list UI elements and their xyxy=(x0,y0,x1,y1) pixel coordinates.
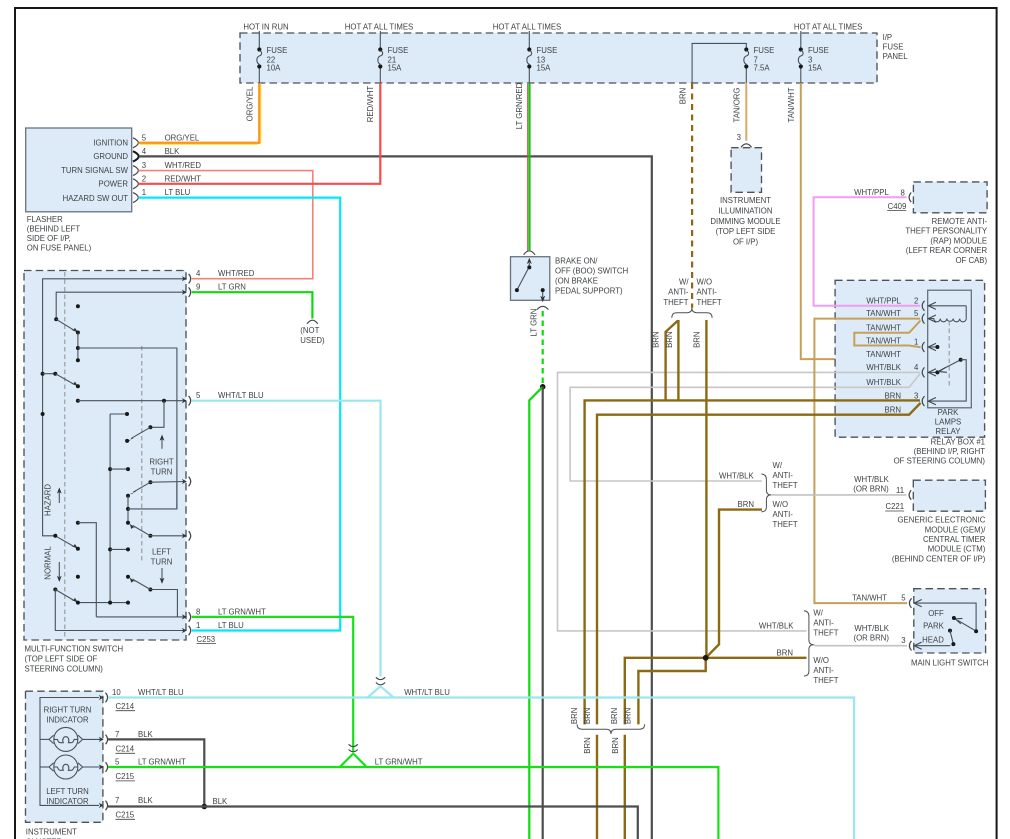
right turn feed blade xyxy=(150,401,164,428)
svg-text:9: 9 xyxy=(196,283,200,292)
svg-text:TURN: TURN xyxy=(151,468,173,477)
wire BRN junction right to MLS brace xyxy=(706,657,807,659)
svg-text:BRN: BRN xyxy=(611,737,620,753)
svg-text:IGNITION: IGNITION xyxy=(93,138,128,147)
svg-text:(TOP LEFT SIDE OF: (TOP LEFT SIDE OF xyxy=(25,654,98,663)
svg-text:RELAY BOX #1: RELAY BOX #1 xyxy=(931,437,985,446)
svg-text:WHT/BLK: WHT/BLK xyxy=(866,378,901,387)
svg-text:LT GRN/RED: LT GRN/RED xyxy=(515,82,524,129)
fuse 21 xyxy=(378,47,383,68)
svg-text:(LEFT REAR CORNER: (LEFT REAR CORNER xyxy=(906,246,988,255)
fuse 7 feed jog from BRN tap xyxy=(692,43,746,83)
fuse 22 xyxy=(257,47,262,68)
wire WHT/BLK(OR BRN) GEM brace to pin 11 xyxy=(771,494,906,496)
svg-text:3: 3 xyxy=(737,133,741,142)
svg-text:BRN: BRN xyxy=(652,331,661,347)
svg-text:GENERIC ELECTRONIC: GENERIC ELECTRONIC xyxy=(897,516,985,525)
left turn indicator lamp xyxy=(49,755,83,779)
flasher box xyxy=(26,128,132,212)
wire BRN w/o anti-theft (down to junction) xyxy=(705,320,707,658)
MFS pin 8 xyxy=(182,612,191,622)
wire WHT/PPL RAP to relay pin 2 xyxy=(814,197,920,305)
svg-text:WHT/RED: WHT/RED xyxy=(165,161,202,170)
svg-text:WHT/LT BLU: WHT/LT BLU xyxy=(138,688,184,697)
svg-text:RIGHT TURN: RIGHT TURN xyxy=(44,706,92,715)
svg-text:FUSE: FUSE xyxy=(388,46,409,55)
svg-text:OF CAB): OF CAB) xyxy=(955,256,987,265)
svg-text:WHT/BLK: WHT/BLK xyxy=(866,363,901,372)
svg-text:OFF (BOO) SWITCH: OFF (BOO) SWITCH xyxy=(555,267,628,276)
svg-text:HAZARD SW OUT: HAZARD SW OUT xyxy=(63,194,129,203)
wire BRN w/anti-theft 1 (to relay pin3 run) xyxy=(666,321,678,401)
flasher pin 1 xyxy=(133,193,138,203)
svg-text:MAIN LIGHT SWITCH: MAIN LIGHT SWITCH xyxy=(911,659,988,668)
MLS brace xyxy=(804,611,814,676)
wire TAN/WHT relay pin5 to MLS pin5 xyxy=(814,319,920,603)
svg-text:STEERING COLUMN): STEERING COLUMN) xyxy=(25,664,104,673)
hazard blade 2 xyxy=(43,373,56,375)
fuse 3 feed wire xyxy=(800,31,802,49)
svg-text:PARK: PARK xyxy=(923,621,944,630)
svg-text:4: 4 xyxy=(914,363,919,372)
wire LT GRN/RED fuse 13 to BOO switch xyxy=(527,84,529,251)
svg-text:LT GRN: LT GRN xyxy=(530,309,539,337)
svg-text:FUSE: FUSE xyxy=(267,46,288,55)
svg-text:BRN: BRN xyxy=(583,708,592,724)
svg-text:3: 3 xyxy=(142,161,146,170)
svg-text:I/P: I/P xyxy=(883,33,893,42)
relay pin 1 xyxy=(922,342,936,352)
svg-text:8: 8 xyxy=(901,188,905,197)
relay pin 2 xyxy=(922,301,936,311)
svg-text:WHT/PPL: WHT/PPL xyxy=(866,296,901,305)
MFS pin 9 xyxy=(182,287,191,297)
svg-text:BRN: BRN xyxy=(885,406,901,415)
svg-text:10A: 10A xyxy=(267,64,282,73)
svg-text:WHT/RED: WHT/RED xyxy=(218,269,255,278)
svg-text:ORG/YEL: ORG/YEL xyxy=(165,133,200,142)
bus A from pin 4 xyxy=(43,279,186,536)
svg-text:THEFT: THEFT xyxy=(813,628,838,637)
svg-text:ANTI-: ANTI- xyxy=(813,666,834,675)
svg-text:LT GRN/WHT: LT GRN/WHT xyxy=(218,607,266,616)
brace under fuse 7 BRN xyxy=(672,308,712,318)
wire BRN dashed fuse 7 tap down to brace xyxy=(691,83,693,308)
cluster pin 7 (C214) xyxy=(99,735,108,745)
left turn pickup xyxy=(76,521,80,525)
svg-text:BRN: BRN xyxy=(623,708,632,724)
svg-text:TAN/ORG: TAN/ORG xyxy=(733,88,742,123)
svg-text:W/: W/ xyxy=(813,608,823,617)
svg-text:MODULE (CTM): MODULE (CTM) xyxy=(928,545,986,554)
svg-text:HAZARD: HAZARD xyxy=(44,484,53,516)
svg-text:7: 7 xyxy=(115,796,119,805)
svg-text:(NOT: (NOT xyxy=(300,326,319,335)
MFS pin 1 xyxy=(182,626,191,636)
svg-text:WHT/LT BLU: WHT/LT BLU xyxy=(404,688,450,697)
svg-text:REMOTE ANTI-: REMOTE ANTI- xyxy=(932,217,988,226)
svg-text:HOT AT ALL TIMES: HOT AT ALL TIMES xyxy=(345,23,413,32)
wire BRN lower run to relay pin 3 connector xyxy=(597,403,921,725)
svg-text:3: 3 xyxy=(901,636,905,645)
wire WHT/BLK(OR BRN) MLS brace to pin 3 xyxy=(814,645,907,646)
svg-text:ANTI-: ANTI- xyxy=(813,618,834,627)
svg-text:5: 5 xyxy=(142,133,147,142)
svg-text:FUSE: FUSE xyxy=(537,46,558,55)
svg-text:FUSE: FUSE xyxy=(808,46,829,55)
svg-text:ANTI-: ANTI- xyxy=(668,288,689,297)
cluster pin 7 (C215) xyxy=(99,801,108,811)
wire RED/WHT fuse 21 to flasher pin2 xyxy=(138,83,380,184)
svg-text:THEFT: THEFT xyxy=(813,676,838,685)
svg-text:BRN: BRN xyxy=(610,708,619,724)
svg-text:HOT AT ALL TIMES: HOT AT ALL TIMES xyxy=(794,23,862,32)
brace above bottom BRN group xyxy=(577,724,645,734)
bus E center xyxy=(110,413,127,415)
svg-text:11: 11 xyxy=(896,486,904,495)
right turn contact chain xyxy=(148,480,152,484)
wire LT GRN solid from junction down page xyxy=(529,387,542,839)
svg-text:RED/WHT: RED/WHT xyxy=(165,174,202,183)
svg-text:RIGHT: RIGHT xyxy=(149,458,173,467)
svg-text:5: 5 xyxy=(901,594,906,603)
wire BRN w/anti-theft 2 xyxy=(677,320,679,400)
svg-text:WHT/BLK: WHT/BLK xyxy=(854,475,889,484)
relay inner rect xyxy=(928,290,972,408)
svg-text:THEFT: THEFT xyxy=(663,298,688,307)
wire BRN junction left then down xyxy=(625,658,706,725)
hazard blade 1 xyxy=(56,319,74,330)
svg-text:FUSE: FUSE xyxy=(883,43,904,52)
MLS box xyxy=(914,589,986,653)
svg-text:BRN: BRN xyxy=(693,331,702,347)
svg-text:PEDAL SUPPORT): PEDAL SUPPORT) xyxy=(555,287,623,296)
fuse 21 feed wire xyxy=(379,31,381,49)
svg-text:OF STEERING COLUMN): OF STEERING COLUMN) xyxy=(894,457,986,466)
left turn blade xyxy=(126,575,130,579)
flasher pin 5 xyxy=(133,138,138,148)
svg-text:ANTI-: ANTI- xyxy=(773,471,794,480)
MFS internal wiring xyxy=(41,279,186,631)
svg-text:BRAKE ON/: BRAKE ON/ xyxy=(555,257,598,266)
wire BLK cluster pin7a down to pin7b run xyxy=(108,739,204,806)
svg-text:(OR BRN): (OR BRN) xyxy=(853,485,889,494)
svg-text:PANEL: PANEL xyxy=(883,52,909,61)
wire BRN junction diag up to GEM brace xyxy=(707,510,762,657)
svg-text:C214: C214 xyxy=(116,745,135,754)
fuse 13 feed wire xyxy=(528,31,530,49)
svg-text:TAN/WHT: TAN/WHT xyxy=(866,350,901,359)
svg-text:POWER: POWER xyxy=(99,179,129,188)
wire TAN/ORG fuse 7 to dimmer module xyxy=(745,83,747,141)
svg-text:LAMPS: LAMPS xyxy=(935,418,961,427)
flasher pin 3 xyxy=(133,166,138,176)
svg-text:C253: C253 xyxy=(197,635,216,644)
fuse 22 feed wire xyxy=(258,31,260,49)
BOO internal contacts xyxy=(515,258,545,302)
svg-text:TURN: TURN xyxy=(151,558,173,567)
BOO switch box xyxy=(511,257,550,301)
hazard blade 3 xyxy=(55,536,74,547)
wire WHT/BLK relay lower to GEM brace xyxy=(570,374,920,481)
svg-text:WHT/BLK: WHT/BLK xyxy=(719,472,754,481)
svg-text:(BEHIND I/P, RIGHT: (BEHIND I/P, RIGHT xyxy=(914,447,986,456)
wire BRN below brace left xyxy=(596,735,598,839)
svg-text:W/: W/ xyxy=(773,461,783,470)
svg-text:BRN: BRN xyxy=(777,648,793,657)
svg-text:ORG/YEL: ORG/YEL xyxy=(246,86,255,121)
svg-text:TAN/WHT: TAN/WHT xyxy=(852,594,887,603)
svg-text:5: 5 xyxy=(115,758,120,767)
svg-text:BRN: BRN xyxy=(665,331,674,347)
svg-text:(TOP LEFT SIDE: (TOP LEFT SIDE xyxy=(716,227,776,236)
MFS pin 5 xyxy=(182,396,191,406)
svg-text:5: 5 xyxy=(914,309,919,318)
svg-text:ANTI-: ANTI- xyxy=(697,288,718,297)
relay pin 5 xyxy=(922,314,936,324)
svg-text:TAN/WHT: TAN/WHT xyxy=(787,87,796,122)
cluster pin 10 xyxy=(99,693,108,703)
svg-text:15A: 15A xyxy=(808,64,823,73)
svg-text:BRN: BRN xyxy=(583,737,592,753)
MFS right turn stub pins xyxy=(182,477,191,487)
svg-text:(BEHIND CENTER OF I/P): (BEHIND CENTER OF I/P) xyxy=(892,554,986,563)
wire BRN horizontal run to relay pin 3 xyxy=(585,400,920,724)
svg-text:10: 10 xyxy=(112,688,121,697)
cluster pin 5 (C215) xyxy=(99,762,108,772)
svg-text:4: 4 xyxy=(142,147,147,156)
RAP module box xyxy=(913,182,987,213)
svg-text:7.5A: 7.5A xyxy=(754,64,771,73)
svg-text:TAN/WHT: TAN/WHT xyxy=(866,309,901,318)
wire LT GRN/WHT MFS pin8 to splice xyxy=(192,617,353,753)
svg-text:INSTRUMENT: INSTRUMENT xyxy=(720,196,771,205)
svg-text:HOT AT ALL TIMES: HOT AT ALL TIMES xyxy=(493,23,561,32)
svg-text:THEFT: THEFT xyxy=(773,481,798,490)
wire WHT/LT BLU MFS pin5 to splice xyxy=(192,401,381,677)
svg-text:1: 1 xyxy=(142,188,146,197)
svg-text:SIDE OF I/P,: SIDE OF I/P, xyxy=(27,234,71,243)
svg-text:THEFT: THEFT xyxy=(773,520,798,529)
relay pin 4 xyxy=(922,367,936,377)
svg-text:LT GRN: LT GRN xyxy=(218,283,246,292)
svg-text:MULTI-FUNCTION SWITCH: MULTI-FUNCTION SWITCH xyxy=(25,644,124,653)
svg-text:2: 2 xyxy=(142,174,146,183)
svg-text:1: 1 xyxy=(196,621,200,630)
MLS internals xyxy=(914,600,978,650)
wire WHT/BLK relay pin4 to MLS brace xyxy=(558,372,921,631)
svg-text:W/: W/ xyxy=(679,277,689,286)
svg-text:(BEHIND LEFT: (BEHIND LEFT xyxy=(27,225,81,234)
fuse 3 xyxy=(798,47,803,68)
svg-text:LEFT: LEFT xyxy=(152,548,171,557)
svg-text:PARK: PARK xyxy=(938,408,959,417)
svg-text:ON FUSE PANEL): ON FUSE PANEL) xyxy=(27,244,92,253)
wire BLK flasher pin4 right then down full page xyxy=(139,156,652,839)
GEM box xyxy=(913,480,985,511)
svg-text:MODULE (GEM)/: MODULE (GEM)/ xyxy=(925,525,986,534)
connector arc above BOO xyxy=(524,251,535,255)
node BLK junction xyxy=(202,804,208,810)
svg-text:FLASHER: FLASHER xyxy=(27,215,63,224)
cluster internal wires xyxy=(40,698,99,806)
MFS pin 4 xyxy=(182,274,191,284)
wire LT GRN/WHT cluster pin5 long run xyxy=(108,767,718,839)
svg-text:(ON BRAKE: (ON BRAKE xyxy=(555,277,598,286)
svg-text:WHT/BLK: WHT/BLK xyxy=(854,624,889,633)
svg-text:TAN/WHT: TAN/WHT xyxy=(866,336,901,345)
node: BRN junction dot xyxy=(703,655,709,661)
inner dashed guide line 2 xyxy=(141,346,143,563)
svg-text:15A: 15A xyxy=(537,64,552,73)
svg-text:FUSE: FUSE xyxy=(754,46,775,55)
svg-text:BLK: BLK xyxy=(138,796,154,805)
svg-text:8: 8 xyxy=(196,607,200,616)
bus B from pin 9 xyxy=(56,292,186,319)
svg-text:LT BLU: LT BLU xyxy=(165,188,191,197)
node: LT GRN junction dot xyxy=(540,384,546,390)
TAN/WHT jumper pin5 to pin1 xyxy=(854,321,920,348)
svg-text:RED/WHT: RED/WHT xyxy=(366,86,375,123)
svg-text:BRN: BRN xyxy=(679,88,688,104)
svg-text:TURN SIGNAL SW: TURN SIGNAL SW xyxy=(61,166,128,175)
wire BLK from junction down page xyxy=(542,387,544,839)
isolated dot xyxy=(76,575,80,579)
svg-text:4: 4 xyxy=(196,269,201,278)
inner dashed guide line 1 xyxy=(64,272,66,638)
svg-text:C214: C214 xyxy=(116,702,135,711)
svg-text:LT GRN/WHT: LT GRN/WHT xyxy=(138,758,186,767)
bottom contact row xyxy=(78,602,128,604)
svg-text:WHT/LT BLU: WHT/LT BLU xyxy=(218,391,264,400)
svg-text:BRN: BRN xyxy=(570,708,579,724)
svg-text:THEFT PERSONALITY: THEFT PERSONALITY xyxy=(905,227,988,236)
right turn blade 2 xyxy=(148,534,152,538)
svg-text:RELAY: RELAY xyxy=(936,427,962,436)
fuse panel box xyxy=(240,33,877,83)
wire WHT/RED flasher pin3 to MFS pin4 xyxy=(138,171,312,279)
svg-text:INSTRUMENT: INSTRUMENT xyxy=(26,828,77,837)
svg-text:LT GRN/WHT: LT GRN/WHT xyxy=(375,758,423,767)
svg-text:NORMAL: NORMAL xyxy=(44,546,53,580)
svg-text:C215: C215 xyxy=(116,811,135,820)
splice WHT/LT BLU xyxy=(368,686,381,697)
wire WHT/LT BLU cluster pin10 long run xyxy=(108,698,854,839)
svg-text:W/O: W/O xyxy=(773,500,789,509)
svg-text:LT BLU: LT BLU xyxy=(218,621,244,630)
svg-text:THEFT: THEFT xyxy=(697,298,722,307)
wire LT BLU flasher pin1 to MFS pin1 xyxy=(138,198,340,631)
wire BRN junction down-left then down xyxy=(638,658,705,725)
svg-text:HOT IN RUN: HOT IN RUN xyxy=(243,23,288,32)
svg-text:BLK: BLK xyxy=(138,730,154,739)
svg-text:CENTRAL TIMER: CENTRAL TIMER xyxy=(923,535,986,544)
svg-text:2: 2 xyxy=(914,296,918,305)
svg-text:1: 1 xyxy=(914,338,918,347)
flasher pin 4 xyxy=(133,151,139,161)
svg-text:C215: C215 xyxy=(116,772,135,781)
svg-text:OFF: OFF xyxy=(928,609,944,618)
normal blade xyxy=(53,588,57,592)
svg-text:INDICATOR: INDICATOR xyxy=(46,716,89,725)
svg-text:W/O: W/O xyxy=(813,656,829,665)
svg-text:LEFT TURN: LEFT TURN xyxy=(46,787,89,796)
svg-text:C221: C221 xyxy=(885,502,904,511)
splice LT GRN/WHT xyxy=(340,754,353,768)
svg-text:WHT/BLK: WHT/BLK xyxy=(759,621,794,630)
pin 8 row xyxy=(96,616,186,618)
GEM brace xyxy=(761,474,771,512)
svg-text:TAN/WHT: TAN/WHT xyxy=(866,323,901,332)
wire LT GRN MFS pin9 to not used xyxy=(192,292,313,318)
svg-text:BLK: BLK xyxy=(213,797,229,806)
wire ORG/YEL flasher pin5 to fuse 22 xyxy=(138,142,259,144)
svg-text:ILLUMINATION: ILLUMINATION xyxy=(718,206,772,215)
svg-text:BRN: BRN xyxy=(738,500,754,509)
svg-text:(OR BRN): (OR BRN) xyxy=(853,634,889,643)
svg-text:USED): USED) xyxy=(300,336,325,345)
svg-text:5: 5 xyxy=(196,391,201,400)
fuse 7 xyxy=(744,47,749,68)
wire TAN/WHT fuse 3 down and to relay pin 1 xyxy=(801,83,921,359)
svg-text:C409: C409 xyxy=(888,202,907,211)
svg-text:W/O: W/O xyxy=(697,277,713,286)
relay pin 3 xyxy=(922,396,936,406)
relay coil + internals xyxy=(928,306,967,401)
svg-text:ANTI-: ANTI- xyxy=(773,510,794,519)
wire LT GRN dashed below BOO xyxy=(542,311,544,385)
svg-text:DIMMING MODULE: DIMMING MODULE xyxy=(710,217,780,226)
svg-text:(RAP) MODULE: (RAP) MODULE xyxy=(930,236,987,245)
svg-text:GROUND: GROUND xyxy=(93,152,128,161)
right turn indicator lamp xyxy=(49,727,83,751)
wire BRN below brace right xyxy=(624,735,626,839)
svg-text:7: 7 xyxy=(115,730,119,739)
svg-text:BLK: BLK xyxy=(165,147,181,156)
wire BLK cluster pin7b long run xyxy=(108,807,638,839)
svg-text:15A: 15A xyxy=(388,64,403,73)
svg-text:WHT/PPL: WHT/PPL xyxy=(854,188,889,197)
pin 5 row xyxy=(76,399,80,403)
connector arc below BOO xyxy=(537,306,548,309)
svg-text:HEAD: HEAD xyxy=(922,636,944,645)
fuse 13 xyxy=(527,47,532,68)
flasher pin 2 xyxy=(133,179,138,189)
svg-text:OF I/P): OF I/P) xyxy=(733,238,759,247)
